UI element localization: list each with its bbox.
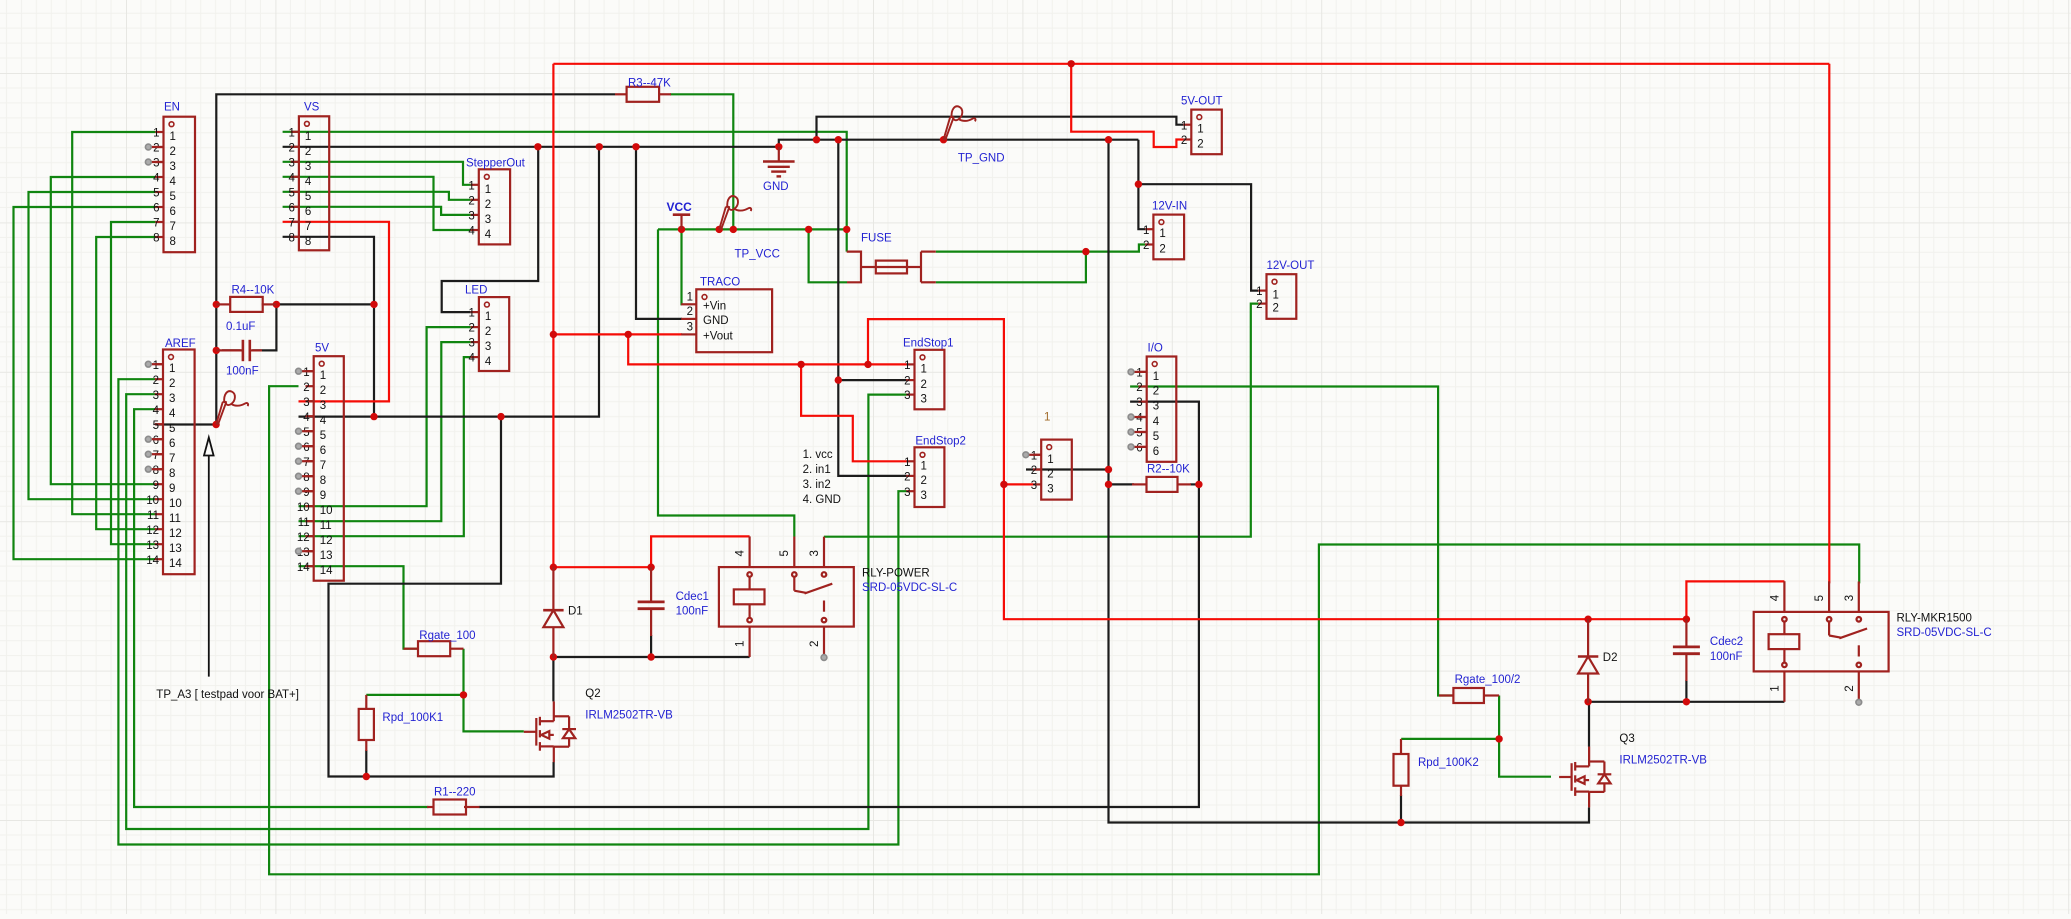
svg-text:6: 6 [1136,443,1142,455]
wire AREF5 testpad node up to R3 left [216,94,615,424]
wire GND big rail down to Q3 source [1109,140,1590,823]
svg-text:1: 1 [1044,412,1050,424]
wire R2 right to I-O3 net [1190,483,1199,485]
svg-text:2: 2 [1143,240,1149,252]
wire AREF3 to EndStop1 pin3 [126,394,906,829]
svg-text:2: 2 [809,641,821,647]
junction Rpd_100K1 bottom [363,773,370,780]
svg-text:1: 1 [153,128,159,140]
svg-text:8: 8 [153,233,159,245]
svg-text:3: 3 [1153,401,1159,413]
svg-text:6: 6 [288,202,294,214]
svg-text:1: 1 [1047,454,1053,466]
svg-text:4: 4 [1769,594,1781,601]
connector EndStop2 (3-pin) [904,435,966,507]
svg-text:2: 2 [904,472,910,484]
svg-text:1: 1 [303,367,309,379]
svg-text:3: 3 [303,397,309,409]
svg-text:8: 8 [320,475,326,487]
svg-text:3: 3 [904,487,910,499]
svg-text:0.1uF: 0.1uF [226,321,255,333]
wire EN1 to AREF11 [72,132,155,514]
svg-text:3: 3 [320,400,326,412]
svg-text:5: 5 [1153,431,1159,443]
unconnected pin marker connector 1 pin1 [1026,454,1041,456]
wire GND rail to EndStop2 pin2 [838,140,906,476]
wire VS6 to StepperOut3 [283,207,471,215]
connector 12V-IN (2-pin) [1143,201,1187,260]
wire EN8 to AREF12 [96,237,155,529]
svg-text:5: 5 [320,430,326,442]
unconnected pin markers 5V [299,370,314,372]
svg-text:RLY-POWER: RLY-POWER [862,568,930,580]
junction Rpd_100K2 bottom [1397,819,1404,826]
svg-text:7: 7 [288,217,294,229]
junction +12V top rail [1068,60,1075,67]
relay RLY-POWER SRD-05VDC-SL-C [719,536,854,657]
svg-text:4: 4 [153,173,160,185]
wire TP_VCC to FUSE bottom-left [809,229,847,282]
capacitor C1 0.1uF/100nF [216,321,262,378]
svg-text:2: 2 [1273,303,1279,315]
test pad TP_VCC squiggle [719,196,751,230]
connector EN (8-pin header) [153,102,195,253]
svg-text:8: 8 [288,232,294,244]
svg-text:12: 12 [320,535,333,547]
junctions D1 bottom net [550,653,557,660]
wire 12V-OUT2 to RLY-POWER pin3 [824,304,1259,537]
wire vcc stub to connector-1 pin3 [1004,483,1033,485]
svg-text:LED: LED [465,285,487,297]
junctions R2 net [1105,466,1112,473]
test pad TP_GND squiggle [944,106,976,140]
wire Rpd_100K1 top to Q2 gate net [366,694,463,696]
svg-text:Q2: Q2 [585,688,600,700]
svg-text:2: 2 [1136,382,1142,394]
wire GND to EndStop1 pin2 [838,379,906,381]
svg-text:Rpd_100K1: Rpd_100K1 [382,712,443,724]
svg-text:1: 1 [305,131,311,143]
svg-text:1: 1 [1273,290,1279,302]
wire LED1 up to GND net [442,147,539,312]
wire +12V to 5V-OUT pin2 [1071,64,1183,147]
connector VS (8-pin header) [288,102,329,251]
svg-text:7: 7 [169,453,175,465]
svg-text:+Vout: +Vout [703,331,734,343]
connector 5V-OUT (2-pin) [1181,96,1223,155]
connector I/O (6-pin header) [1136,343,1176,462]
wire vcc to EndStop2 pin1 [801,364,906,461]
resistor R3--47K [627,78,672,102]
wire +12V left drop [552,64,554,567]
wire +12V branch to EndStop1 pin1 [628,334,906,364]
junctions Cdec1 top net [550,564,557,571]
resistor R4--10K [230,285,274,312]
wire AREF5 to testpad node [155,423,216,425]
svg-text:Cdec2: Cdec2 [1710,636,1743,648]
svg-text:13: 13 [320,550,333,562]
wire Rpd_100K1 bottom to GND [365,750,367,777]
wire VCC to TRACO pin1 [680,229,683,304]
wire 5V11 to LED3 [299,342,471,521]
diode D1 [543,606,583,628]
test pad TP_A3 squiggle [216,391,248,425]
svg-text:9: 9 [303,487,309,499]
svg-text:D1: D1 [568,606,583,618]
svg-text:9: 9 [320,490,326,502]
svg-text:11: 11 [147,510,159,522]
svg-text:6: 6 [303,442,309,454]
svg-text:5V-OUT: 5V-OUT [1181,96,1223,108]
wire VS4 to StepperOut4 [283,177,471,230]
svg-text:3: 3 [921,490,927,502]
svg-text:1: 1 [1769,685,1781,691]
svg-text:11: 11 [169,513,181,525]
svg-text:4: 4 [468,353,475,365]
svg-text:IRLM2502TR-VB: IRLM2502TR-VB [585,710,673,722]
svg-text:6: 6 [320,445,326,457]
svg-text:3: 3 [485,341,491,353]
diode D2 [1578,652,1618,674]
junctions VS2 GND net [534,143,541,150]
svg-text:14: 14 [169,558,182,570]
svg-text:3: 3 [809,550,821,556]
svg-text:EndStop2: EndStop2 [915,435,966,447]
svg-text:FUSE: FUSE [861,232,892,244]
wire VCC rail down to RLY-POWER pin5 [658,229,794,536]
svg-text:1: 1 [1197,124,1203,136]
svg-text:9: 9 [169,483,175,495]
wire +12V to Cdec1 top [553,566,651,568]
wire Cdec2 bottom lead [1685,680,1687,702]
svg-text:7: 7 [303,457,309,469]
resistor Rpd_100K2 [1394,754,1479,786]
svg-text:5V: 5V [315,343,329,355]
svg-text:1: 1 [1153,371,1159,383]
svg-text:GND: GND [763,181,789,193]
svg-text:12V-IN: 12V-IN [1152,201,1187,213]
junction TP_A3 testpad node [212,421,219,428]
resistor R2--10K [1147,464,1191,492]
wire +12V to TRACO pin3 [553,333,682,335]
svg-text:1: 1 [1256,286,1262,298]
svg-text:11: 11 [320,520,332,532]
svg-text:3. in2: 3. in2 [803,479,831,491]
svg-text:4: 4 [485,229,492,241]
svg-text:3: 3 [305,161,311,173]
capacitor Cdec1 100nF [638,567,709,636]
wire D2 bottom net to RLY-MKR pin1 [1588,701,1784,703]
wire EN5 to AREF10 [29,192,156,499]
svg-text:3: 3 [1136,397,1142,409]
svg-text:2: 2 [485,199,491,211]
svg-text:2: 2 [1031,465,1037,477]
connector 1 (3-pin) [1031,440,1072,500]
svg-text:3: 3 [904,390,910,402]
svg-text:3: 3 [170,161,176,173]
svg-text:12: 12 [169,528,182,540]
wire 5V10 to LED2 [299,327,471,506]
svg-text:2: 2 [687,306,693,318]
connector 5V (14-pin header) [297,343,344,581]
wire VS3 to StepperOut1 [283,162,471,185]
wire AREF2 to EndStop2 pin3 [118,379,906,844]
svg-text:1: 1 [1136,368,1142,380]
svg-text:Cdec1: Cdec1 [676,591,709,603]
unconnected pin marker RLY-POWER pin2 [821,655,827,661]
junctions D2 bottom net [1584,698,1591,705]
svg-text:3: 3 [288,157,294,169]
connector 12V-OUT (2-pin) [1256,260,1314,319]
wire 5V2 long run to RLY-MKR pin3 [269,386,1859,874]
svg-text:6: 6 [305,206,311,218]
wire connector-1 pin2 to GND rail [1026,468,1109,470]
svg-text:3: 3 [1047,483,1053,495]
svg-text:3: 3 [169,393,175,405]
wire Cdec1 bottom lead [650,635,652,657]
resistor R1--220 [434,787,476,815]
wire Cdec2 node to RLY-MKR pin4 [1686,581,1784,619]
connector AREF (14-pin header) [146,338,195,574]
wire GND U-loop to Q2 source [329,417,554,777]
svg-text:2: 2 [921,379,927,391]
svg-text:4: 4 [735,550,747,557]
wire GND rail to R2 left [1109,483,1135,485]
wire +12V right drop to RLY-MKR pin5 [1828,64,1830,584]
svg-text:14: 14 [146,555,159,567]
svg-text:1: 1 [468,308,474,320]
svg-text:5: 5 [169,423,175,435]
wire I-O pin3 down and left to R1 right [479,402,1199,807]
svg-text:8: 8 [153,465,159,477]
svg-text:12: 12 [297,532,310,544]
svg-text:SRD-05VDC-SL-C: SRD-05VDC-SL-C [1897,627,1992,639]
legend EndStop pinout text [803,449,841,506]
unconnected pin markers EN [148,146,163,148]
svg-text:1: 1 [485,184,491,196]
svg-text:12V-OUT: 12V-OUT [1267,260,1315,272]
wire GND to 5V-OUT pin1 [817,117,1184,140]
wire VS1 to FUSE top / VCC node [283,132,847,252]
junctions EndStop1 pin1 net [797,361,804,368]
wire vcc loop and long run right [868,319,1686,619]
connector EndStop1 (3-pin) [903,337,954,409]
junction TP_GND testpad [940,136,947,143]
svg-text:SRD-05VDC-SL-C: SRD-05VDC-SL-C [862,582,957,594]
svg-text:1: 1 [468,180,474,192]
svg-text:R1--220: R1--220 [434,787,476,799]
junctions 5V4 GND link [370,413,377,420]
svg-text:3: 3 [468,211,474,223]
svg-text:1: 1 [921,363,927,375]
svg-text:3: 3 [1031,480,1037,492]
junctions TP_VCC rail [678,226,685,233]
svg-text:TP_GND: TP_GND [958,153,1005,165]
svg-text:2: 2 [1159,244,1165,256]
ground symbol GND [763,147,795,193]
capacitor Cdec2 100nF [1673,619,1743,681]
svg-text:1: 1 [921,460,927,472]
svg-text:2: 2 [485,326,491,338]
svg-text:I/O: I/O [1148,343,1163,355]
svg-text:2: 2 [320,385,326,397]
svg-text:VCC: VCC [667,200,693,214]
wire VS7 to 5V3 [283,222,389,402]
resistor Rpd_100K1 [359,709,443,740]
junction EndStop1 pin2 [835,376,842,383]
svg-text:14: 14 [297,562,310,574]
wire FUSE right to 12V-IN pin2 [936,245,1146,252]
wire AREF4 to R1 left [134,409,428,807]
unconnected pin markers AREF [148,363,163,365]
svg-text:13: 13 [146,540,159,552]
svg-text:100nF: 100nF [676,606,709,618]
svg-text:3: 3 [468,338,474,350]
svg-text:StepperOut: StepperOut [466,157,526,169]
svg-text:2: 2 [288,142,294,154]
svg-text:1: 1 [1031,450,1037,462]
svg-text:7: 7 [170,221,176,233]
svg-text:8: 8 [303,472,309,484]
wire 5V4 GND link up to VS2 net [299,147,600,417]
resistor Rgate_100 [418,630,476,656]
svg-text:Rpd_100K2: Rpd_100K2 [1418,757,1479,769]
wire FUSE bottom-right up to node [936,252,1086,283]
wire +12V top rail [553,63,1829,65]
svg-text:5: 5 [1136,428,1142,440]
svg-text:2: 2 [921,475,927,487]
svg-text:100nF: 100nF [1710,651,1743,663]
resistor Rgate_100/2 [1453,674,1520,703]
svg-text:8: 8 [170,236,176,248]
svg-text:1: 1 [1159,228,1165,240]
svg-text:100nF: 100nF [226,366,259,378]
svg-text:2: 2 [468,195,474,207]
junctions R4 net [213,301,220,308]
svg-text:R2--10K: R2--10K [1147,464,1190,476]
wire EN6 to AREF14 [14,207,156,559]
wire cap 0.1uF right lead up to R4 [252,304,276,350]
annotation arrow TP_A3 [156,438,299,702]
svg-text:5: 5 [288,187,294,199]
wire Cdec1 node to RLY-POWER pin4 [651,536,750,567]
wire 5V14 to Rgate_100 left [299,566,419,649]
svg-text:4: 4 [169,408,176,420]
wire VS8 down to 5V4 GND link [283,237,374,417]
svg-text:3: 3 [921,394,927,406]
wire 5V12 to LED4 [299,357,471,536]
svg-text:9: 9 [153,480,159,492]
svg-text:1: 1 [904,360,910,372]
wire Rgate_100-2 right to Q3 gate [1499,696,1551,777]
svg-text:1. vcc: 1. vcc [803,449,833,461]
svg-text:3: 3 [687,322,693,334]
svg-text:Q3: Q3 [1619,733,1634,745]
wire GND net to TRACO pin2 [636,147,682,319]
svg-text:8: 8 [305,236,311,248]
svg-text:1: 1 [153,360,159,372]
svg-text:5: 5 [170,191,176,203]
svg-text:6: 6 [169,438,175,450]
svg-text:Rgate_100: Rgate_100 [419,630,475,642]
svg-text:7: 7 [320,460,326,472]
wire Rpd_100K2 top to Q3 gate net [1401,738,1499,740]
svg-text:5: 5 [779,550,791,556]
svg-text:1: 1 [1181,120,1187,132]
svg-text:D2: D2 [1603,652,1618,664]
svg-text:4: 4 [303,412,310,424]
junctions +12V TRACO branch [550,331,557,338]
wire GND rail right [779,140,1139,147]
junction Q2 gate net [460,691,467,698]
wire EN4 to AREF9 [51,177,156,484]
svg-text:1: 1 [687,292,693,304]
svg-text:4. GND: 4. GND [803,494,841,506]
wire down to Q3 drain [1588,702,1590,747]
svg-text:+Vin: +Vin [703,301,726,313]
svg-text:GND: GND [703,315,729,327]
wire R4 right to VS8 net [276,303,374,305]
transistor Q2 IRLM2502TR-VB [524,701,576,762]
wire VS2 to GND node [283,146,779,148]
junction FUSE right node [1082,248,1089,255]
svg-text:2: 2 [468,323,474,335]
svg-text:1: 1 [288,127,294,139]
relay RLY-MKR1500 SRD-05VDC-SL-C [1754,581,1889,702]
wire down to Q2 drain [552,657,554,701]
svg-text:3: 3 [1844,595,1856,601]
svg-text:4: 4 [1153,416,1160,428]
svg-text:2: 2 [1047,469,1053,481]
svg-text:1: 1 [1143,225,1149,237]
svg-text:11: 11 [298,517,310,529]
svg-text:5: 5 [305,191,311,203]
svg-text:7: 7 [153,450,159,462]
wire GND rail to 12V-IN pin1 [1138,140,1145,230]
svg-text:5: 5 [303,427,309,439]
svg-text:12: 12 [146,525,159,537]
svg-text:4: 4 [468,226,475,238]
connector LED (4-pin header) [465,285,509,372]
svg-text:EndStop1: EndStop1 [903,337,954,349]
svg-text:EN: EN [164,102,180,114]
svg-text:10: 10 [320,505,333,517]
svg-text:2: 2 [303,382,309,394]
wire TP_VCC rail [658,228,847,230]
svg-text:10: 10 [297,502,310,514]
svg-text:6: 6 [153,435,159,447]
svg-text:4: 4 [485,356,492,368]
svg-text:4: 4 [153,405,160,417]
svg-text:TP_VCC: TP_VCC [735,248,780,260]
svg-text:4: 4 [320,415,327,427]
junctions +12V right net [1584,616,1591,623]
svg-text:8: 8 [169,468,175,480]
svg-text:10: 10 [146,495,159,507]
svg-text:Rgate_100/2: Rgate_100/2 [1455,674,1521,686]
svg-text:2: 2 [1256,299,1262,311]
svg-text:R4--10K: R4--10K [232,285,275,297]
wire Rgate_100 right to Q2 gate [464,649,524,732]
svg-text:IRLM2502TR-VB: IRLM2502TR-VB [1619,755,1707,767]
voltage regulator TRACO [681,276,772,352]
svg-text:TRACO: TRACO [700,276,740,288]
svg-text:1: 1 [170,131,176,143]
svg-text:6: 6 [1153,446,1159,458]
power symbol VCC [667,200,693,229]
svg-text:10: 10 [169,498,182,510]
svg-text:3: 3 [153,158,159,170]
